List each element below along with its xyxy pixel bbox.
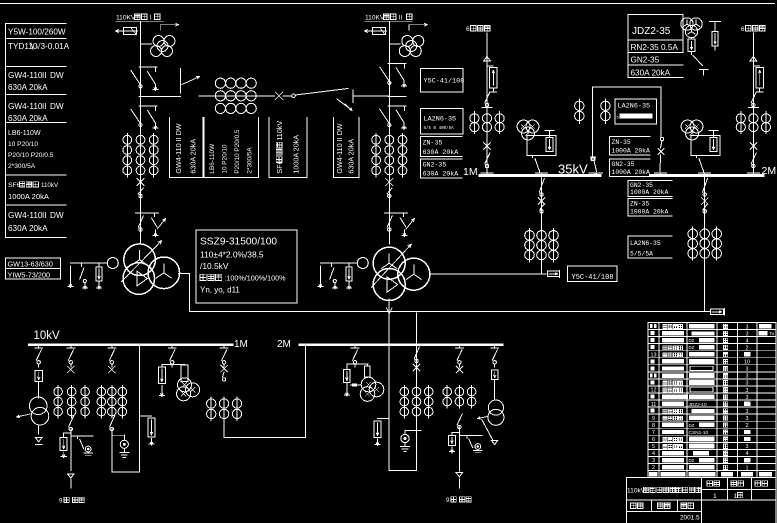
svg-text:1000A 20kA: 1000A 20kA <box>612 148 651 155</box>
svg-text:110kV: 110kV <box>41 182 59 189</box>
svg-text:Tu: Tu <box>769 331 775 336</box>
svg-text:2*300/5A: 2*300/5A <box>247 147 254 174</box>
svg-text:10: 10 <box>744 360 750 366</box>
svg-text:1: 1 <box>713 493 717 500</box>
svg-text:8: 8 <box>652 423 655 429</box>
svg-text:2M: 2M <box>762 165 777 177</box>
svg-text:9: 9 <box>59 498 63 505</box>
svg-text:630A 20kA: 630A 20kA <box>423 149 459 156</box>
svg-text:GN2-35: GN2-35 <box>612 161 635 168</box>
svg-text:3: 3 <box>746 324 749 330</box>
svg-text:10 P20/10: 10 P20/10 <box>222 144 229 174</box>
svg-text:630A 20kA: 630A 20kA <box>188 139 197 174</box>
svg-text:GN2-35: GN2-35 <box>423 162 447 169</box>
svg-text:LB6-110W: LB6-110W <box>209 143 216 174</box>
svg-text:110kV: 110kV <box>275 121 284 141</box>
svg-text:1000A 20kA: 1000A 20kA <box>8 192 50 201</box>
svg-text:P20/10 P20/0.5: P20/10 P20/0.5 <box>8 152 54 159</box>
svg-text:YIW5-73/200: YIW5-73/200 <box>8 270 51 279</box>
svg-text:1: 1 <box>734 493 738 500</box>
svg-text:JDZJ-10: JDZJ-10 <box>689 402 707 408</box>
svg-text:1: 1 <box>746 465 749 471</box>
svg-text:35kV: 35kV <box>558 162 588 177</box>
svg-text:3: 3 <box>652 458 655 464</box>
svg-text:Y5W-100/260W: Y5W-100/260W <box>8 28 66 37</box>
svg-text:GW13-63/630: GW13-63/630 <box>8 259 53 268</box>
svg-text:Y5C-41/108: Y5C-41/108 <box>572 274 614 282</box>
svg-text:110±4*2.0%/38.5: 110±4*2.0%/38.5 <box>200 250 264 260</box>
svg-text:P20/10 P20/0.5: P20/10 P20/0.5 <box>234 129 241 174</box>
svg-text:630A 20kA: 630A 20kA <box>631 68 671 77</box>
svg-text:2*300/5A: 2*300/5A <box>8 163 36 170</box>
svg-text:2: 2 <box>746 423 749 429</box>
svg-text:3: 3 <box>746 388 749 394</box>
svg-text:110KV: 110KV <box>365 15 385 22</box>
svg-text:3: 3 <box>746 381 749 387</box>
svg-text:1M: 1M <box>234 339 248 350</box>
svg-text:II: II <box>42 211 47 220</box>
svg-text:RN2-35 0.5A: RN2-35 0.5A <box>631 43 679 52</box>
svg-text:630A 20kA: 630A 20kA <box>8 114 48 123</box>
svg-text:GW4-110 II DW: GW4-110 II DW <box>174 123 183 173</box>
svg-text:3: 3 <box>746 416 749 422</box>
svg-text:GN2-35: GN2-35 <box>631 56 660 65</box>
svg-text:LA2N6-35: LA2N6-35 <box>424 116 457 124</box>
svg-text:DZ: DZ <box>689 338 695 343</box>
svg-text:LB6-110W: LB6-110W <box>8 130 41 137</box>
svg-text:DW: DW <box>50 211 64 220</box>
svg-text:GW4-110: GW4-110 <box>8 71 43 80</box>
svg-text:2: 2 <box>746 345 749 351</box>
svg-text:12: 12 <box>651 388 657 394</box>
svg-text:GW4-110: GW4-110 <box>8 102 43 111</box>
svg-text:3: 3 <box>746 444 749 450</box>
svg-text:4: 4 <box>746 338 749 344</box>
svg-text:110kV: 110kV <box>627 488 646 495</box>
svg-text:9: 9 <box>446 497 450 504</box>
svg-text:/10.5kV: /10.5kV <box>200 261 229 271</box>
svg-text:7: 7 <box>652 430 655 436</box>
svg-text:1000A 20kA: 1000A 20kA <box>612 169 651 176</box>
svg-text:6: 6 <box>741 26 745 33</box>
svg-text:3: 3 <box>746 331 749 337</box>
svg-text:5/5/5A: 5/5/5A <box>630 251 653 258</box>
svg-text:1M: 1M <box>463 166 478 178</box>
svg-text:Yn, yo, d11: Yn, yo, d11 <box>200 286 240 295</box>
svg-text:5: 5 <box>652 444 655 450</box>
svg-text:2001.5: 2001.5 <box>680 515 700 522</box>
svg-text:DZ: DZ <box>689 458 695 463</box>
svg-text:I: I <box>150 15 152 22</box>
svg-text:DZ: DZ <box>689 345 695 350</box>
svg-text:630A 20kA: 630A 20kA <box>8 83 48 92</box>
svg-text:II: II <box>399 15 403 22</box>
svg-text:SF6: SF6 <box>8 182 21 189</box>
svg-text:GN2-35: GN2-35 <box>630 182 653 189</box>
svg-text:GW4-110 II DW: GW4-110 II DW <box>335 123 344 173</box>
svg-text:ZN-35: ZN-35 <box>423 139 443 146</box>
svg-text:2: 2 <box>652 465 655 471</box>
svg-text:1000A 20kA: 1000A 20kA <box>630 209 669 216</box>
svg-text:9: 9 <box>652 416 655 422</box>
svg-text:JDZ2-35: JDZ2-35 <box>632 26 671 37</box>
svg-text:5: 5 <box>617 115 620 120</box>
svg-text:630A 20kA: 630A 20kA <box>346 139 355 174</box>
svg-text:2M: 2M <box>277 339 291 350</box>
svg-text:6: 6 <box>466 26 470 33</box>
svg-text:DZ: DZ <box>689 423 695 428</box>
svg-text:3: 3 <box>746 395 749 401</box>
svg-text:3: 3 <box>746 374 749 380</box>
svg-text:ZN-35: ZN-35 <box>630 201 649 208</box>
svg-text:1000A 20kA: 1000A 20kA <box>291 135 300 174</box>
svg-text:11: 11 <box>651 402 657 408</box>
svg-text:LA2N6-35: LA2N6-35 <box>630 240 661 247</box>
svg-text:110KV: 110KV <box>116 15 136 22</box>
svg-text:10kV: 10kV <box>34 330 61 342</box>
svg-text:4: 4 <box>652 451 655 457</box>
svg-text:√3-0.01A: √3-0.01A <box>36 42 70 51</box>
svg-text:CSN1-10: CSN1-10 <box>689 430 709 436</box>
svg-text:ZN-35: ZN-35 <box>612 139 631 146</box>
svg-text:II: II <box>42 71 47 80</box>
svg-text:630A 20kA: 630A 20kA <box>8 224 48 233</box>
svg-text:II: II <box>42 102 47 111</box>
svg-text:4: 4 <box>746 451 749 457</box>
svg-text:DW: DW <box>50 71 64 80</box>
svg-text:10 P20/10: 10 P20/10 <box>8 141 38 148</box>
svg-text:Y5C-41/108: Y5C-41/108 <box>424 78 465 86</box>
svg-text:630A 20kA: 630A 20kA <box>423 170 459 177</box>
svg-text::100%/100%/100%: :100%/100%/100% <box>224 274 286 283</box>
svg-text:13: 13 <box>651 352 657 358</box>
svg-text:6: 6 <box>652 437 655 443</box>
svg-text:3: 3 <box>746 367 749 373</box>
svg-text:SSZ9-31500/100: SSZ9-31500/100 <box>200 237 277 248</box>
svg-text:GW4-110: GW4-110 <box>8 211 43 220</box>
svg-text:TYD110: TYD110 <box>8 42 38 51</box>
svg-text:DW: DW <box>50 102 64 111</box>
svg-text:3: 3 <box>746 409 749 415</box>
svg-text:5/5 B 400/5A: 5/5 B 400/5A <box>424 126 455 131</box>
svg-text:1000A 20kA: 1000A 20kA <box>630 189 669 196</box>
svg-text:LA2N6-35: LA2N6-35 <box>618 103 651 111</box>
